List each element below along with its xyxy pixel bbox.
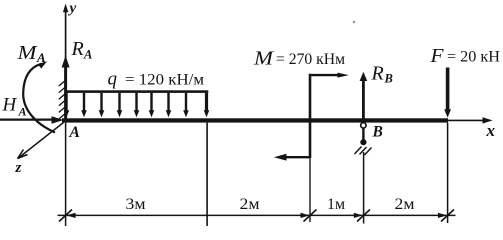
extension line below moment M xyxy=(309,158,311,222)
distributed load q top line xyxy=(65,90,209,93)
svg-text:R: R xyxy=(371,63,384,85)
reaction R_B (up arrow at B) xyxy=(360,72,368,123)
applied moment M couple symbol (vertical bar with two opposite arrows) xyxy=(274,73,349,161)
svg-text:A: A xyxy=(18,105,27,119)
svg-text:B: B xyxy=(384,72,393,86)
dimension tick at A xyxy=(59,210,76,222)
wall hatching at fixed support A xyxy=(59,80,67,120)
svg-text:z: z xyxy=(15,160,22,176)
dimension tick at B xyxy=(354,210,370,222)
svg-text:= 120 кН/м: = 120 кН/м xyxy=(125,72,204,89)
extension line below B xyxy=(363,152,365,224)
svg-text:q: q xyxy=(108,69,118,90)
svg-text:M: M xyxy=(253,48,275,70)
svg-text:R: R xyxy=(71,38,84,60)
roller support under B (post, base blob, ground hatching) xyxy=(355,128,372,155)
svg-text:1м: 1м xyxy=(327,196,345,213)
extension line below A (origin vertical continued to dimension row) xyxy=(65,123,67,226)
reaction R_A (thick up arrow on the y axis at A) xyxy=(62,56,70,119)
moment M_A (curved arrow at the fixed end) xyxy=(23,61,55,132)
svg-text:B: B xyxy=(372,124,383,141)
svg-text:= 270 кНм: = 270 кНм xyxy=(276,51,345,68)
svg-text:3м: 3м xyxy=(126,196,146,213)
svg-text:H: H xyxy=(2,95,18,116)
dimension tick at x=310 xyxy=(301,210,317,222)
pin circle at B xyxy=(361,123,366,128)
svg-text:M: M xyxy=(16,42,38,64)
beam (horizontal bar from A to right end) xyxy=(62,118,448,122)
z axis (arrow to lower left) xyxy=(18,123,64,159)
reaction H_A (horizontal arrow into A from the left) xyxy=(0,116,64,124)
svg-text:2м: 2м xyxy=(395,196,415,213)
svg-text:A: A xyxy=(83,48,92,62)
dimension tick at right end xyxy=(438,210,454,222)
extension line below F xyxy=(447,123,449,223)
distributed load q arrows xyxy=(64,93,210,117)
svg-text:x: x xyxy=(486,121,496,140)
svg-text:F: F xyxy=(429,45,444,67)
extension line at x=207 (end of q span) xyxy=(206,123,208,226)
stray scan speck xyxy=(353,21,355,23)
x axis (thin line + arrowhead right of beam end) xyxy=(448,117,493,123)
svg-text:A: A xyxy=(36,50,46,65)
dimension line xyxy=(58,214,456,216)
force F (down arrow at right end) xyxy=(444,68,451,118)
svg-text:2м: 2м xyxy=(240,196,260,213)
svg-text:= 20 кН: = 20 кН xyxy=(447,49,500,66)
svg-text:A: A xyxy=(69,124,80,141)
svg-text:y: y xyxy=(68,1,77,17)
y axis (thin vertical line with arrowhead at top) xyxy=(63,4,68,119)
